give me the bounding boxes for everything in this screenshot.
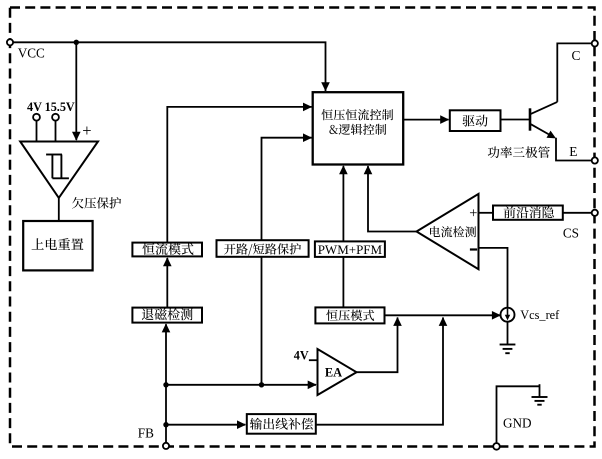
block: 输出线补偿 (output line compensation) [247,414,316,434]
wire: EA output up to Vcs_ref rail [357,318,398,373]
label &逻辑控制 (line 2) [329,124,386,135]
current source: Vcs_ref reference [501,308,515,322]
svg-text:C: C [572,48,581,63]
arrowhead into Vcs_ref source [492,311,501,320]
wire: U2 + input to 前沿消隐 [479,212,494,214]
arrowhead into 驱动 [440,115,449,124]
label + (U2) [469,206,477,222]
block: 恒压模式 (CV mode) [315,307,384,323]
ground: Vcs_ref reference ground [500,345,516,354]
wire: 开路/短路保护 to control block left (lower) [262,138,312,240]
wire: 退磁检测 to 恒流模式 [166,258,168,307]
wire: FB to EA inverting input [166,384,316,386]
pin GND [493,443,500,450]
wire: 输出线补偿 output up to Vcs_ref rail [316,318,443,425]
label: 15.5V threshold [45,100,75,114]
label 前沿消隐 [504,206,554,218]
wire: PWM+PFM down to 恒压模式 [342,257,344,307]
wire: 电流检测 output to control block bottom [368,166,417,231]
arrowhead into 恒压恒流控制 top [321,82,330,91]
wire: FB pin riser to 退磁检测 [165,324,167,443]
svg-text:+: + [82,121,91,140]
terminal: 15.5V threshold input [52,114,59,121]
block: 上电重置 (power-on reset) [23,221,92,270]
arrowhead on Q1 emitter [547,131,557,139]
wire: 驱动 to Q1 base [501,119,531,121]
wire: VCC branch down to UVLO comparator + input [75,42,77,140]
block: 恒压恒流控制 & 逻辑控制 (CV/CC + logic control) [313,92,404,164]
op-amp U2: 电流检测 (current sense comparator) [417,194,479,269]
block: 恒流模式 (CC mode) [132,243,202,257]
junction: VCC rail / UVLO branch [74,40,79,45]
block: 开路/短路保护 (open/short protection) [217,240,309,257]
svg-text:15.5V: 15.5V [45,100,75,114]
label E [569,144,577,159]
pin FB [163,443,169,449]
wire: 恒流模式 to control block left (upper) [167,107,311,242]
wire: 开路/短路保护 down to FB net [261,257,263,385]
hysteresis symbol inside U1 [46,155,69,179]
terminal: 4V threshold input [33,114,40,121]
block: 前沿消隐 (leading edge blanking) [493,206,563,220]
wire: control block to 驱动 [403,119,448,121]
svg-text:CS: CS [563,226,579,241]
wire: Q1 collector to pin C [557,43,592,102]
arrowhead into control block bottom (PWM) [339,165,348,174]
label 开路/短路保护 [224,243,301,255]
wire: VCC rail from pin to control block [10,42,326,91]
label GND [503,415,532,430]
arrowhead into EA inverting input [308,381,317,390]
arrowhead into 输出线补偿 [237,420,246,429]
pin VCC [7,39,13,45]
junction: FB / EA branch [163,382,168,387]
wire: GND pin to internal ground [497,386,540,443]
pin CS [592,210,598,216]
label + (UVLO plus input) [82,121,91,140]
arrowhead into UVLO + input [72,132,81,141]
wire: 恒压模式 to Vcs_ref source [385,314,501,316]
label: 4V threshold [27,100,42,114]
junction: FB / 开路短路保护 branch [259,382,264,387]
svg-text:+: + [469,206,477,222]
block: PWM+PFM [315,241,385,257]
wire: 前沿消隐 to CS pin [563,212,592,214]
wire: U1 output to power-on-reset [58,198,60,221]
junction: FB / 输出线补偿 branch [163,422,168,427]
label VCC [18,45,45,60]
ground: internal ground symbol [532,384,548,405]
label 上电重置 [32,238,84,250]
op-amp U1: undervoltage comparator (欠压保护) [20,142,98,198]
label 恒压模式 [326,310,374,321]
arrowhead into 恒流模式 bottom [163,257,172,266]
svg-text:Vcs_ref: Vcs_ref [520,308,560,322]
pin C [592,40,598,46]
wire: PWM+PFM up to control block bottom [342,166,344,241]
label PWM+PFM [318,242,383,257]
wire: 4V stub to EA [309,359,318,361]
svg-text:FB: FB [138,425,154,440]
wire: Vcs_ref to ground [507,321,509,344]
label C [572,48,581,63]
label: 4V EA reference [294,348,309,362]
svg-text:E: E [569,144,577,159]
label EA [325,366,342,380]
svg-text:4V: 4V [294,348,309,362]
label 退磁检测 [142,308,193,320]
svg-text:GND: GND [503,415,532,430]
label 恒流模式 [142,243,193,255]
svg-text:PWM+PFM: PWM+PFM [318,242,383,257]
arrowhead 输出线补偿 into rail [439,317,448,326]
op-amp U3: EA (error amplifier) [318,349,357,395]
wire: Q1 emitter to pin E [556,138,592,161]
arrowhead EA output into rail [393,317,402,326]
arrowhead into 退磁检测 bottom [162,323,171,332]
svg-text:4V: 4V [27,100,42,114]
arrowhead into control block left lower [303,133,312,142]
label Vcs_ref [520,308,560,322]
svg-text:EA: EA [325,366,342,380]
label 输出线补偿 [250,418,313,430]
wire: U2 - input to Vcs_ref [479,248,508,308]
block: 驱动 (drive) [450,110,501,131]
label 电流检测 [430,226,476,237]
label - (U2) [470,248,477,250]
transistor Q1: power BJT (功率三极管) [530,102,557,136]
wire: FB to 输出线补偿 [166,424,245,426]
label 恒压恒流控制 (line 1) [322,109,394,120]
label 功率三极管 [488,146,550,158]
wire: 15.5V stem [55,121,57,142]
pin E [592,157,598,163]
svg-text:VCC: VCC [18,45,45,60]
label FB [138,425,154,440]
arrowhead into control block left upper [303,103,312,112]
label CS [563,226,579,241]
wire: 4V stem [36,121,38,142]
label 欠压保护 [72,197,121,209]
label 驱动 [463,115,488,127]
block: 退磁检测 (demagnetization detect) [132,308,202,323]
arrowhead into control block bottom (current sense) [364,165,373,174]
